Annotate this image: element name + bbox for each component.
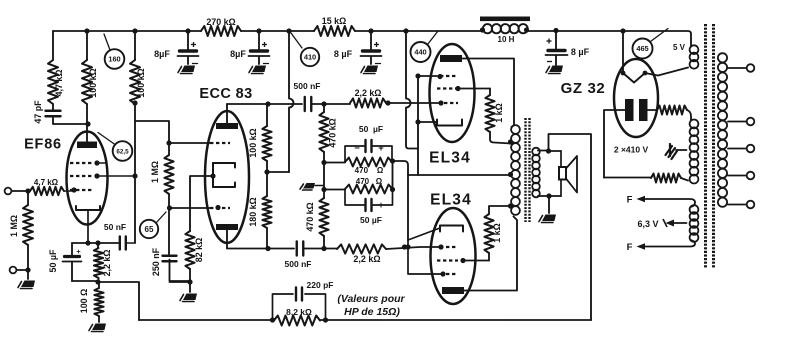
svg-text:1 MΩ: 1 MΩ bbox=[150, 161, 160, 183]
wire screen to ECC83 grid branch bbox=[135, 121, 169, 143]
winding 6,3 V bbox=[690, 205, 699, 214]
EL34-1 cathode bbox=[437, 120, 462, 126]
wire primary tap 5 bbox=[728, 204, 747, 206]
resistor anode left (surge) bbox=[604, 177, 651, 179]
wire g3-cathode tie EL34-1 bbox=[417, 76, 419, 175]
svg-text:270 kΩ: 270 kΩ bbox=[206, 17, 235, 27]
wire bias-2 link bbox=[324, 189, 345, 191]
capacitor 220 pF (feedback) bbox=[273, 294, 294, 320]
svg-text:2,2 kΩ: 2,2 kΩ bbox=[353, 254, 380, 264]
tube EL34 no.1 bbox=[430, 44, 475, 142]
svg-text:100 kΩ: 100 kΩ bbox=[248, 128, 258, 157]
capacitor 50 nF (screen bypass) bbox=[119, 237, 121, 250]
svg-text:8µF: 8µF bbox=[154, 49, 170, 59]
node UL tap 2 bbox=[508, 203, 513, 208]
EL34-1 grid 1 bbox=[444, 102, 458, 104]
svg-text:8µF: 8µF bbox=[230, 49, 246, 59]
svg-text:470 Ω: 470 Ω bbox=[355, 166, 384, 175]
transformer OPT secondary winding bbox=[532, 148, 540, 156]
resistor 82 kΩ (splitter tail) bbox=[185, 231, 194, 269]
node feedback left bbox=[270, 317, 275, 322]
terminal primary 2 bbox=[747, 118, 755, 126]
terminal primary 1 bbox=[747, 64, 755, 72]
resistor anode right (surge) bbox=[657, 106, 687, 115]
wire cathode branch EL34-2 bbox=[407, 175, 409, 240]
svg-text:500 nF: 500 nF bbox=[294, 81, 321, 91]
resistor 180 kΩ (ECC83 anode load lower) bbox=[266, 172, 268, 196]
svg-text:ECC 83: ECC 83 bbox=[199, 86, 252, 102]
wire screen feed vertical bbox=[406, 31, 418, 149]
svg-text:+: + bbox=[378, 143, 384, 154]
resistor 8,2 kΩ (feedback) bbox=[274, 316, 320, 326]
tube EF86 bbox=[67, 132, 108, 225]
svg-text:180 kΩ: 180 kΩ bbox=[248, 197, 258, 226]
chassis symbol HT CT bbox=[666, 144, 678, 159]
wire to grid-leak upper bbox=[312, 103, 351, 105]
wire 6,3V centre tap bbox=[673, 222, 687, 224]
wire ECC83 lower anode bbox=[227, 248, 294, 250]
GZ32 filament bbox=[622, 31, 624, 73]
ECC83 anode upper plate bbox=[216, 123, 238, 129]
tube GZ32 bbox=[614, 59, 658, 137]
ECC83 anode lower plate bbox=[216, 224, 238, 230]
wire ECC83 cathode to tail bbox=[190, 176, 213, 225]
svg-text:250 nF: 250 nF bbox=[151, 247, 161, 276]
svg-text:100 kΩ: 100 kΩ bbox=[136, 68, 146, 97]
node 470k/bias-2 bbox=[321, 187, 326, 192]
arrow F top bbox=[637, 196, 646, 202]
svg-text:220 pF: 220 pF bbox=[307, 280, 334, 290]
ground input terminal bbox=[10, 267, 17, 274]
choke 10 H bbox=[480, 17, 530, 22]
wire cathode to feedback rail bbox=[98, 282, 139, 320]
wire to EL34-2 g3 bbox=[408, 240, 443, 274]
svg-text:+: + bbox=[76, 247, 81, 256]
input terminal bbox=[5, 188, 12, 195]
svg-text:6,3 V: 6,3 V bbox=[637, 219, 658, 229]
wire secondary bottom bbox=[538, 195, 561, 197]
wire to EL34-1 grid bbox=[386, 102, 441, 104]
node rail/8uF-3 junction bbox=[368, 28, 373, 33]
ground symbol bias bbox=[303, 183, 315, 189]
wire bias nets tie bbox=[392, 161, 394, 190]
svg-text:+: + bbox=[378, 200, 384, 211]
wire to EL34-1 g3 bbox=[418, 75, 437, 77]
capacitor 500 nF upper bbox=[304, 97, 306, 111]
svg-text:5 V: 5 V bbox=[673, 43, 686, 52]
transformer OPT primary winding bbox=[511, 125, 520, 134]
resistor 1 MΩ (input grid leak) bbox=[27, 191, 29, 205]
svg-text:470 kΩ: 470 kΩ bbox=[328, 118, 338, 147]
node feedback right bbox=[323, 317, 328, 322]
EL34-2 cathode bbox=[440, 226, 463, 232]
GZ32 anode left bbox=[625, 99, 634, 121]
wire feedback rail bbox=[139, 319, 274, 321]
EF86 grid 1 bbox=[70, 189, 94, 191]
svg-text:F: F bbox=[627, 242, 633, 253]
wire primary tap 4 bbox=[728, 175, 747, 177]
svg-text:10 H: 10 H bbox=[498, 35, 515, 44]
ground symbol 8uF-2 bbox=[252, 66, 266, 73]
svg-text:1 MΩ: 1 MΩ bbox=[9, 215, 19, 237]
terminal primary 3 bbox=[747, 145, 755, 153]
capacitor 500 nF lower bbox=[296, 242, 298, 256]
node rail/EL34 branch junction bbox=[403, 28, 408, 33]
winding PT primary bbox=[718, 53, 727, 62]
voltage label 465 bbox=[633, 39, 653, 59]
voltage label 160 bbox=[105, 49, 125, 69]
wire splitter HT feed bbox=[289, 31, 294, 172]
svg-text:1 kΩ: 1 kΩ bbox=[494, 103, 504, 122]
svg-text:82 kΩ: 82 kΩ bbox=[194, 238, 204, 262]
wire EL34-1 anode to OPT bbox=[462, 59, 514, 128]
resistor 2,2 kΩ (EF86 cathode) bbox=[97, 243, 99, 248]
wire secondary top bbox=[538, 150, 548, 152]
wire input bbox=[12, 190, 31, 192]
wire feedback takeoff bbox=[549, 134, 592, 320]
svg-text:8 µF: 8 µF bbox=[334, 49, 353, 59]
wire to EL34-1 cathode bbox=[418, 121, 437, 123]
svg-text:47 pF: 47 pF bbox=[33, 100, 43, 124]
svg-text:GZ 32: GZ 32 bbox=[561, 80, 606, 97]
ground symbol 8uF-3 bbox=[364, 66, 378, 73]
ECC83 cathodes bbox=[212, 163, 214, 187]
EF86 cathode bbox=[76, 206, 100, 210]
svg-text:470 Ω: 470 Ω bbox=[356, 177, 383, 186]
capacitor 50 µF (EF86 cathode) bbox=[71, 243, 73, 255]
svg-text:2,2 kΩ: 2,2 kΩ bbox=[355, 88, 382, 98]
voltage label 62,5 bbox=[113, 141, 133, 161]
node bias net right upper bbox=[390, 158, 395, 163]
svg-text:50 µF: 50 µF bbox=[48, 249, 58, 272]
ground symbol input bbox=[21, 281, 35, 288]
resistor 470 Ω upper bbox=[345, 158, 392, 167]
wire cathode top bbox=[72, 242, 119, 244]
wire rail middle bbox=[241, 30, 314, 32]
tube ECC83 bbox=[205, 111, 249, 243]
svg-text:HP de 15Ω): HP de 15Ω) bbox=[344, 306, 400, 318]
resistor 470 kΩ lower bbox=[323, 190, 325, 198]
wire EL34-2 screen bbox=[463, 260, 489, 262]
transformer OPT core bbox=[524, 118, 526, 222]
svg-text:4,7 kΩ: 4,7 kΩ bbox=[34, 178, 59, 187]
svg-text:2 ×410 V: 2 ×410 V bbox=[614, 145, 649, 155]
EL34-2 grid 1 bbox=[440, 246, 458, 248]
wire screen node vertical bbox=[134, 104, 136, 243]
node rail/8uF-2 junction bbox=[256, 28, 261, 33]
wire rail choke to GZ32 bbox=[527, 31, 691, 46]
resistor 470 Ω lower bbox=[345, 185, 393, 194]
svg-text:470 kΩ: 470 kΩ bbox=[305, 202, 315, 231]
resistor 1 MΩ (splitter grid leak) bbox=[168, 143, 170, 155]
tube EL34 no.2 bbox=[431, 208, 476, 304]
node grid-leak/grid-2 junction bbox=[167, 205, 172, 210]
resistor 1 kΩ no.2 bbox=[488, 253, 490, 261]
resistor 2,2 kΩ upper bbox=[350, 98, 386, 107]
node tail ground junction bbox=[187, 279, 192, 284]
ground symbol tail bbox=[183, 294, 197, 301]
wire primary tap 3 bbox=[728, 148, 747, 150]
ground symbol 8uF-4 bbox=[549, 66, 563, 73]
wire anode left bbox=[604, 110, 625, 178]
wire anode right bbox=[648, 109, 658, 111]
EF86 grid 3 bbox=[70, 162, 94, 164]
capacitor 8 µF no.1 bbox=[187, 31, 189, 50]
svg-text:50 nF: 50 nF bbox=[104, 222, 126, 232]
svg-text:−: − bbox=[354, 143, 360, 154]
wire to EL34-2 grid bbox=[386, 247, 441, 249]
node rail/splitter feed junction bbox=[286, 28, 291, 33]
svg-text:8 µF: 8 µF bbox=[571, 47, 590, 57]
wire to EL34-2 cathode bbox=[408, 228, 440, 240]
svg-text:440: 440 bbox=[414, 48, 426, 57]
EF86 anode plate bbox=[77, 142, 97, 149]
EL34-2 grid 3 bbox=[446, 273, 458, 275]
wire cathode line to OPT tap bbox=[408, 174, 511, 176]
wire primary tap 1 bbox=[728, 67, 747, 69]
capacitor 8 µF no.2 bbox=[258, 31, 260, 50]
wire to grid bbox=[64, 190, 72, 192]
ground symbol speaker bbox=[542, 215, 556, 222]
wire cathode bottom loop bbox=[72, 280, 98, 282]
node bias net right lower bbox=[390, 187, 395, 192]
resistor 1 kΩ no.1 bbox=[489, 89, 491, 96]
wire bias to cathode line bbox=[393, 161, 409, 175]
svg-text:410: 410 bbox=[304, 53, 316, 62]
voltage label 65 bbox=[140, 220, 158, 238]
wire to grid-leak lower bbox=[304, 248, 338, 250]
ECC83 grid lower bbox=[210, 207, 230, 209]
ECC83 grid upper bbox=[210, 142, 230, 144]
resistor 4,7 kΩ (grid stopper) bbox=[30, 187, 64, 195]
resistor 470 kΩ upper bbox=[323, 104, 325, 112]
svg-text:100 kΩ: 100 kΩ bbox=[88, 68, 98, 97]
svg-text:EF86: EF86 bbox=[24, 137, 62, 153]
svg-text:2,2 kΩ: 2,2 kΩ bbox=[102, 250, 112, 277]
node rail/8uF-1 junction bbox=[185, 28, 190, 33]
node 470k/bias-1 bbox=[321, 160, 326, 165]
node anode-load mid junction bbox=[264, 169, 269, 174]
svg-text:−: − bbox=[354, 200, 360, 211]
svg-text:1 kΩ: 1 kΩ bbox=[492, 223, 502, 242]
svg-text:15 kΩ: 15 kΩ bbox=[322, 16, 346, 26]
svg-text:62,5: 62,5 bbox=[116, 148, 129, 155]
terminal primary 4 bbox=[747, 172, 755, 180]
wire filament to 5V winding bbox=[645, 68, 688, 76]
svg-text:50 µF: 50 µF bbox=[359, 124, 383, 134]
svg-text:465: 465 bbox=[636, 44, 648, 53]
capacitor 47 pF bbox=[52, 104, 54, 110]
svg-text:8,2 kΩ: 8,2 kΩ bbox=[286, 307, 312, 317]
wire ECC83 upper anode bbox=[227, 103, 302, 105]
wire rail to choke bbox=[355, 30, 481, 32]
svg-text:EL34: EL34 bbox=[429, 150, 471, 167]
loudspeaker bbox=[559, 167, 566, 180]
EF86 grid 2 (screen) bbox=[70, 175, 94, 177]
resistor 100 kΩ (ECC83 anode load upper) bbox=[266, 104, 268, 126]
wire 6,3V top to F bbox=[644, 199, 695, 207]
resistor 100 Ω (feedback leg) bbox=[98, 282, 100, 288]
svg-text:160: 160 bbox=[108, 55, 120, 64]
svg-text:F: F bbox=[627, 195, 633, 206]
voltage label 440 bbox=[411, 42, 431, 62]
winding 5 V bbox=[690, 45, 699, 54]
voltage label 410 bbox=[301, 48, 319, 66]
capacitor 8 µF no.4 bbox=[555, 31, 557, 49]
ground symbol 100R bbox=[92, 324, 106, 331]
GZ32 anode right bbox=[639, 99, 648, 121]
wire bias-1 link bbox=[324, 162, 345, 164]
wire HT centre tap bbox=[676, 149, 687, 151]
wire EL34-1 screen bbox=[458, 88, 490, 90]
resistor 4,7 kΩ (compensation) bbox=[52, 31, 54, 60]
wire 6,3V bottom to F bbox=[644, 240, 695, 247]
svg-text:EL34: EL34 bbox=[430, 192, 472, 209]
arrow F bottom bbox=[637, 243, 646, 249]
node 47pF/anode junction bbox=[85, 121, 90, 126]
capacitor 50 µF lower bbox=[345, 189, 366, 205]
svg-text:500 nF: 500 nF bbox=[285, 259, 312, 269]
resistor 270 kΩ bbox=[201, 26, 241, 36]
EL34-1 anode plate bbox=[440, 55, 462, 62]
node UL tap 1 bbox=[508, 139, 513, 144]
winding HT 2x410V bbox=[690, 120, 699, 129]
svg-text:(Valeurs pour: (Valeurs pour bbox=[337, 293, 405, 305]
node rail/100k-2 junction bbox=[132, 28, 137, 33]
svg-text:65: 65 bbox=[145, 225, 154, 234]
resistor 2,2 kΩ lower bbox=[337, 244, 386, 253]
capacitor 8 µF no.3 bbox=[370, 31, 372, 50]
capacitor 250 nF (tail) bbox=[168, 208, 170, 254]
capacitor 50 µF upper bbox=[345, 146, 366, 162]
EL34-1 grid 3 bbox=[440, 75, 458, 77]
node rail/100k junction bbox=[84, 28, 89, 33]
wire speaker ground bbox=[548, 196, 550, 213]
chassis symbol 6,3V CT bbox=[666, 220, 675, 227]
bias ground stub bbox=[315, 185, 324, 187]
resistor 100 kΩ (EF86 screen feed) bbox=[134, 31, 136, 60]
svg-text:50 µF: 50 µF bbox=[360, 215, 382, 225]
terminal primary 5 bbox=[747, 201, 755, 209]
EL34-2 grid 2 bbox=[437, 259, 458, 261]
EL34-1 grid 2 bbox=[437, 87, 458, 89]
EL34-2 anode plate bbox=[442, 287, 464, 294]
wire primary tap 2 bbox=[728, 121, 747, 123]
ground symbol 8uF-1 bbox=[181, 66, 195, 73]
resistor 100 kΩ (EF86 anode load) bbox=[86, 31, 88, 60]
svg-text:100 Ω: 100 Ω bbox=[79, 289, 89, 313]
resistor 15 kΩ bbox=[314, 26, 355, 36]
transformer PT core bbox=[704, 24, 707, 268]
wire EL34-2 anode to OPT bbox=[464, 217, 517, 291]
wire B+ rail left section bbox=[53, 30, 201, 32]
svg-text:4,7 kΩ: 4,7 kΩ bbox=[54, 70, 64, 97]
